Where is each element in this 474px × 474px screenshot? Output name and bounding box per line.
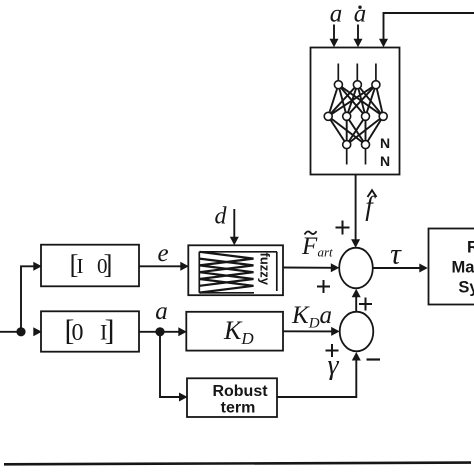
node a junction dot bbox=[155, 327, 164, 336]
svg-text:N: N bbox=[380, 153, 390, 169]
0I box bbox=[41, 311, 139, 351]
label f-hat bbox=[365, 190, 376, 221]
svg-text:art: art bbox=[318, 245, 334, 260]
wire a branch down to robust term bbox=[160, 336, 188, 402]
node input junction dot bbox=[16, 327, 25, 336]
fuzzy membership axes bbox=[199, 252, 277, 293]
svg-text:N: N bbox=[380, 135, 390, 151]
label NN bbox=[380, 135, 390, 169]
wire feedback line from right edge to NN input bbox=[379, 13, 474, 47]
plus sign left-below S2 bbox=[326, 344, 339, 357]
svg-text:a: a bbox=[155, 298, 168, 325]
minus sign right of S2 bottom bbox=[367, 358, 381, 360]
NN neurons top layer bbox=[334, 81, 380, 89]
wire tau from S1 to robot box bbox=[373, 264, 428, 273]
KD box bbox=[186, 312, 283, 351]
NN neurons middle layer bbox=[324, 112, 387, 120]
svg-text:γ: γ bbox=[327, 350, 339, 381]
svg-text:τ: τ bbox=[390, 238, 402, 271]
NN input stubs bbox=[338, 64, 376, 82]
robot manipulator system box (clipped at right edge) bbox=[429, 229, 474, 305]
svg-text:F: F bbox=[301, 233, 318, 260]
wire f-hat from NN to summing junction S1 bbox=[351, 175, 360, 248]
wire input from left edge bbox=[0, 331, 18, 333]
svg-text:a: a bbox=[354, 1, 367, 28]
I0 box bbox=[41, 245, 139, 287]
wire a-dot into NN bbox=[354, 25, 363, 48]
svg-text:e: e bbox=[157, 240, 168, 267]
svg-text:]: ] bbox=[105, 314, 115, 347]
label F-art with tilde bbox=[301, 231, 333, 260]
label a-dot (top input) bbox=[354, 1, 367, 28]
bottom rule bbox=[4, 463, 471, 465]
wire from robust term box up into S2 bbox=[277, 352, 361, 397]
svg-text:I: I bbox=[77, 254, 84, 278]
wire from input dot up to I0 box bbox=[21, 262, 42, 332]
wire from S2 up into S1 bbox=[352, 289, 361, 312]
svg-text:System: System bbox=[458, 278, 474, 296]
NN layer connections bbox=[328, 85, 383, 145]
svg-text:fuzzy: fuzzy bbox=[258, 253, 273, 286]
summing junction S2 bbox=[340, 312, 374, 352]
NN output stubs bbox=[347, 149, 366, 165]
plus sign right of S1-S2 connector bbox=[359, 298, 372, 311]
plus sign above S1 bbox=[336, 221, 350, 235]
summing junction S1 bbox=[339, 248, 373, 289]
plus sign left-below S1 bbox=[317, 280, 330, 293]
wire KDa from KD box to S2 bbox=[283, 327, 340, 336]
NN box bbox=[311, 48, 400, 175]
svg-text:d: d bbox=[215, 204, 228, 230]
wire F-art from fuzzy box to S1 bbox=[283, 263, 339, 272]
wire arrow into 0I box bbox=[33, 327, 42, 336]
svg-text:]: ] bbox=[104, 250, 113, 280]
svg-text:Robust: Robust bbox=[212, 383, 268, 400]
wire d into fuzzy box bbox=[230, 209, 239, 245]
wire from 0I box to a node and KD box bbox=[139, 327, 187, 336]
wire e from I0 box to fuzzy box bbox=[139, 262, 189, 271]
NN neurons bottom layer bbox=[343, 141, 370, 149]
svg-text:a: a bbox=[330, 1, 343, 28]
svg-text:term: term bbox=[221, 400, 256, 417]
svg-text:Manipulator: Manipulator bbox=[452, 259, 474, 277]
svg-text:Robot: Robot bbox=[467, 239, 474, 257]
svg-text:0: 0 bbox=[72, 320, 84, 346]
fuzzy box bbox=[188, 245, 283, 295]
robust term box bbox=[187, 378, 277, 417]
fuzzy membership triangles bbox=[200, 252, 254, 293]
wire a into NN bbox=[330, 25, 339, 48]
